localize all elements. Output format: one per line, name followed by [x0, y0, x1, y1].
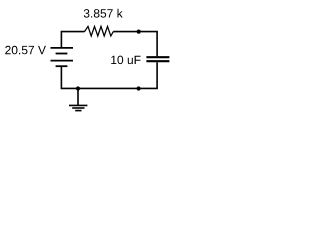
capacitor C1 bottom plate [146, 60, 169, 62]
battery short plate 2 [56, 53, 68, 55]
capacitor C1 top plate [146, 56, 169, 58]
wire right branch lower and bottom rail back to battery [61, 62, 157, 88]
ground bar 2 [72, 107, 84, 109]
ground stub wire [77, 88, 79, 105]
battery long plate 3 [51, 60, 74, 62]
junction dot node A on top rail [137, 30, 141, 34]
battery short plate 4 (negative) [56, 65, 68, 67]
wire top rail right segment from resistor to capacitor branch [113, 32, 157, 57]
resistor R1 zigzag body 3.857 k [85, 26, 114, 36]
battery long plate 1 (positive) [51, 47, 74, 49]
junction dot node B on bottom rail [137, 86, 141, 90]
wire top rail left segment from battery positive to resistor [61, 32, 84, 48]
junction dot ground node [76, 86, 80, 90]
label source value 20.57 V [5, 46, 46, 55]
ground bar 3 [75, 110, 81, 112]
label capacitor value 10 uF [111, 56, 140, 65]
label resistor value 3.857 k [84, 9, 123, 18]
ground bar 1 [69, 104, 87, 106]
